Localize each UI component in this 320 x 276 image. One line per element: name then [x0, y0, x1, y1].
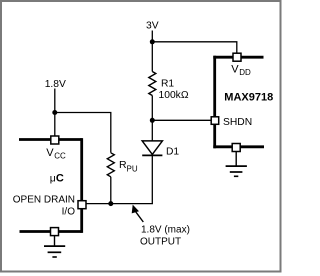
junction 1.8V rail — [52, 110, 57, 115]
svg-text:SHDN: SHDN — [223, 117, 252, 128]
wire RPU bottom to output junction — [110, 177, 112, 204]
resistor RPU — [107, 153, 114, 177]
svg-text:OUTPUT: OUTPUT — [140, 236, 181, 247]
svg-text:1.8V (max): 1.8V (max) — [141, 225, 190, 236]
label RPU — [119, 159, 138, 173]
svg-text:PU: PU — [127, 164, 138, 173]
svg-text:100kΩ: 100kΩ — [159, 90, 189, 101]
wire 1.8V rail to RPU top — [55, 113, 111, 153]
wire 3V rail down to R1 top — [151, 31, 153, 72]
wire 3V rail to VDD pin — [152, 42, 237, 53]
svg-text:V: V — [231, 64, 239, 76]
label VDD — [231, 64, 251, 77]
wire R1 bottom to junction — [151, 96, 153, 121]
svg-text:MAX9718: MAX9718 — [224, 92, 273, 104]
svg-text:I/O: I/O — [62, 206, 76, 217]
pin I/O square — [78, 201, 86, 209]
svg-text:V: V — [46, 147, 54, 159]
wire junction to SHDN pin — [152, 119, 211, 121]
diode D1 — [142, 141, 162, 156]
arrow output callout — [132, 205, 144, 222]
junction output node — [108, 201, 113, 206]
wire 1.8V rail down to VCC pin — [54, 89, 56, 137]
wire junction down to diode D1 anode — [151, 120, 153, 141]
pin VCC square — [51, 136, 59, 144]
svg-text:μC: μC — [50, 172, 64, 184]
microcontroller uC block outline — [19, 138, 82, 233]
ground uC — [44, 236, 65, 257]
svg-text:DD: DD — [239, 68, 251, 77]
junction R1/SHDN/D1 node — [150, 118, 155, 123]
amplifier MAX9718 block outline — [213, 56, 264, 148]
pin SHDN square — [211, 117, 219, 125]
svg-text:3V: 3V — [146, 21, 159, 32]
svg-text:OPEN DRAIN: OPEN DRAIN — [13, 194, 75, 205]
ground MAX9718 — [226, 152, 247, 177]
wire D1 cathode down to output wire — [151, 155, 153, 203]
resistor R1 — [149, 72, 156, 96]
wire output from I/O pin to diode — [86, 203, 153, 205]
svg-text:1.8V: 1.8V — [45, 79, 66, 90]
pin VDD square — [233, 53, 241, 61]
svg-text:CC: CC — [54, 151, 66, 160]
svg-text:D1: D1 — [166, 146, 179, 157]
junction 3V rail — [150, 39, 155, 44]
label VCC — [46, 147, 66, 160]
pin MAX ground square — [232, 144, 240, 152]
svg-text:R1: R1 — [161, 78, 174, 89]
pin uC ground square — [51, 228, 59, 236]
